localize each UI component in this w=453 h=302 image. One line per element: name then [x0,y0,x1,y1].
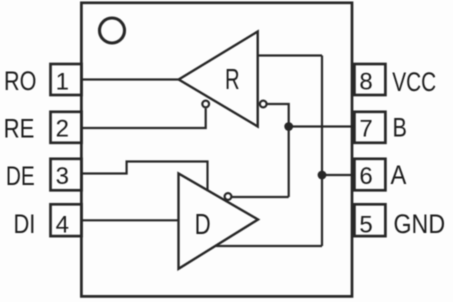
wire D Z-output to B bus [231,196,288,198]
svg-text:3: 3 [56,163,69,190]
wire B line to pin 7 [289,125,355,127]
wire vertical A bus [321,56,323,247]
svg-text:DE: DE [6,161,35,191]
svg-text:RE: RE [4,115,35,145]
pin 4 box [51,204,82,236]
wire RE pin2 to R enable bubble [82,109,206,129]
pin 3 box [51,159,82,191]
svg-text:4: 4 [56,212,69,239]
pin-1 indicator circle [100,18,125,43]
wire D output Y along bottom to A bus [216,245,322,247]
svg-text:1: 1 [56,69,69,96]
receiver R triangle [179,32,258,127]
pin 8 box [354,64,385,95]
svg-text:5: 5 [359,212,372,239]
wire R B-input to vertical B bus [267,104,289,197]
bubble D inverting output Z [225,193,232,200]
svg-text:RO: RO [4,67,36,97]
wire DI pin4 to D input [82,219,179,221]
svg-text:6: 6 [359,163,372,190]
svg-text:D: D [195,209,211,240]
svg-text:B: B [393,113,407,143]
pin 1 box [51,64,82,95]
pin 7 box [354,112,385,143]
junction dot on A line [318,171,327,180]
svg-text:DI: DI [14,210,36,240]
svg-text:A: A [391,161,407,191]
svg-text:7: 7 [359,116,372,143]
junction dot on B line [284,122,293,131]
svg-text:VCC: VCC [392,67,436,97]
svg-text:R: R [225,65,240,96]
wire DE pin3 to D enable [82,162,208,191]
pin 2 box [51,112,82,143]
pin 6 box [354,159,385,191]
svg-text:8: 8 [359,69,372,96]
bubble R inverting input B [260,101,267,108]
wire RO pin1 to R output [82,78,179,80]
wire R input A: from R to vertical bus [258,54,322,56]
IC body U1 [81,3,352,297]
driver D triangle [179,174,259,269]
wire A line to pin 6 [322,174,355,176]
svg-text:2: 2 [56,116,69,143]
svg-text:GND: GND [394,209,446,239]
RE enable bubble on R [202,101,209,108]
pin 5 box [354,204,385,236]
